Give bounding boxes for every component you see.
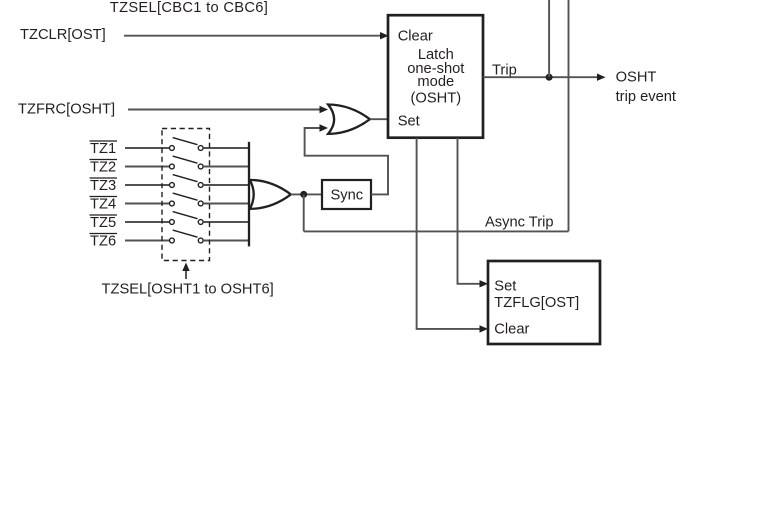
wire latch trip to TZFLG Set input — [458, 138, 481, 284]
wire switch SW4 to summing bar — [203, 203, 249, 205]
svg-text:(OSHT): (OSHT) — [411, 91, 462, 107]
svg-text:trip event: trip event — [616, 89, 676, 105]
arrowhead into TZFLG Clear pin — [480, 325, 489, 332]
arrowhead OSHT trip event — [597, 74, 606, 81]
wire TZFRC[OSHT] to OR gate G2 top input — [128, 109, 321, 111]
switch SW1 (TZ1 select) — [170, 138, 204, 151]
switch SW6 (TZ6 select) — [170, 230, 204, 243]
switch SW3 (TZ3 select) — [170, 175, 204, 188]
svg-text:TZSEL[CBC1 to CBC6]: TZSEL[CBC1 to CBC6] — [110, 0, 268, 16]
wire Sync output feedback to OR gate G2 lower input — [305, 128, 388, 194]
svg-text:OSHT: OSHT — [616, 69, 657, 85]
wire G2 output to latch Set input — [370, 118, 388, 120]
wire async trip vertical (off top edge) — [568, 0, 570, 231]
wire trip junction up to CBC path (off top edge) — [548, 0, 550, 77]
arrowhead into OR gate G2 top input — [320, 106, 329, 113]
net label OSHT trip event — [616, 69, 676, 105]
net label TZ6 (active low, with overline) — [90, 234, 118, 250]
svg-text:Clear: Clear — [398, 28, 433, 44]
wire switch SW5 to summing bar — [203, 221, 249, 223]
wire TZ6 to switch SW6 — [125, 240, 169, 242]
wire latch clear branch to TZFLG Clear input — [417, 138, 481, 329]
node B (trip junction) — [546, 74, 553, 81]
sync block U2 — [322, 180, 371, 209]
net label TZ1 (active low, with overline) — [90, 141, 118, 157]
net label TZ4 (active low, with overline) — [90, 197, 118, 213]
node A (trip OR output junction) — [300, 191, 307, 198]
wire switch SW6 to summing bar — [203, 240, 249, 242]
wire TZ4 to switch SW4 — [125, 203, 169, 205]
switch SW4 (TZ4 select) — [170, 193, 204, 206]
svg-text:Set: Set — [398, 114, 420, 130]
wire switch SW3 to summing bar — [203, 184, 249, 186]
wire TZCLR[OST] to latch Clear input — [124, 35, 381, 37]
wire switch SW1 to summing bar — [203, 147, 249, 149]
svg-text:TZ2: TZ2 — [90, 160, 116, 176]
switch SW2 (TZ2 select) — [170, 156, 204, 169]
svg-text:TZ6: TZ6 — [90, 234, 116, 250]
svg-text:TZ5: TZ5 — [90, 215, 116, 231]
arrowhead into TZFLG Set pin — [480, 280, 489, 287]
latch U1 (one-shot trip latch OSHT) — [388, 15, 483, 138]
switch bank dashed enclosure (TZSEL controlled) — [162, 129, 210, 261]
svg-text:TZCLR[OST]: TZCLR[OST] — [20, 27, 106, 43]
svg-text:Sync: Sync — [331, 188, 364, 204]
svg-text:TZSEL[OSHT1 to OSHT6]: TZSEL[OSHT1 to OSHT6] — [102, 282, 274, 298]
wire Trip output — [483, 76, 598, 78]
arrowhead into OR gate G2 lower input — [320, 124, 329, 131]
wire G1 output to node A and Sync input — [291, 193, 322, 195]
net label TZ2 (active low, with overline) — [90, 160, 118, 176]
svg-text:TZFLG[OST]: TZFLG[OST] — [494, 295, 579, 311]
svg-text:Async Trip: Async Trip — [485, 215, 554, 231]
wire TZ5 to switch SW5 — [125, 221, 169, 223]
svg-text:TZFRC[OSHT]: TZFRC[OSHT] — [18, 102, 115, 118]
summing bar (OR gate G1 input bus) — [248, 142, 250, 247]
svg-text:Trip: Trip — [492, 63, 517, 79]
svg-text:Set: Set — [494, 278, 516, 294]
wire TZ3 to switch SW3 — [125, 184, 169, 186]
wire node A down to async trip — [303, 194, 305, 231]
svg-text:Clear: Clear — [494, 322, 529, 338]
net label TZ5 (active low, with overline) — [90, 215, 118, 231]
wire TZ1 to switch SW1 — [125, 147, 169, 149]
or-gate G2 (OSHT Set OR) — [328, 105, 370, 134]
arrowhead into latch Clear pin — [380, 32, 389, 39]
flag register U3 (TZFLG[OST]) — [488, 261, 600, 344]
svg-text:mode: mode — [417, 74, 454, 90]
svg-text:TZ1: TZ1 — [90, 141, 116, 157]
or-gate G1 (6-input trip OR) — [250, 180, 291, 209]
wire switch SW2 to summing bar — [203, 166, 249, 168]
switch SW5 (TZ5 select) — [170, 212, 204, 225]
svg-text:TZ4: TZ4 — [90, 197, 116, 213]
wire TZ2 to switch SW2 — [125, 166, 169, 168]
svg-text:TZ3: TZ3 — [90, 178, 116, 194]
net label TZ3 (active low, with overline) — [90, 178, 118, 194]
wire async trip horizontal — [304, 230, 569, 232]
TZSEL control arrow into switch bank — [182, 263, 189, 280]
